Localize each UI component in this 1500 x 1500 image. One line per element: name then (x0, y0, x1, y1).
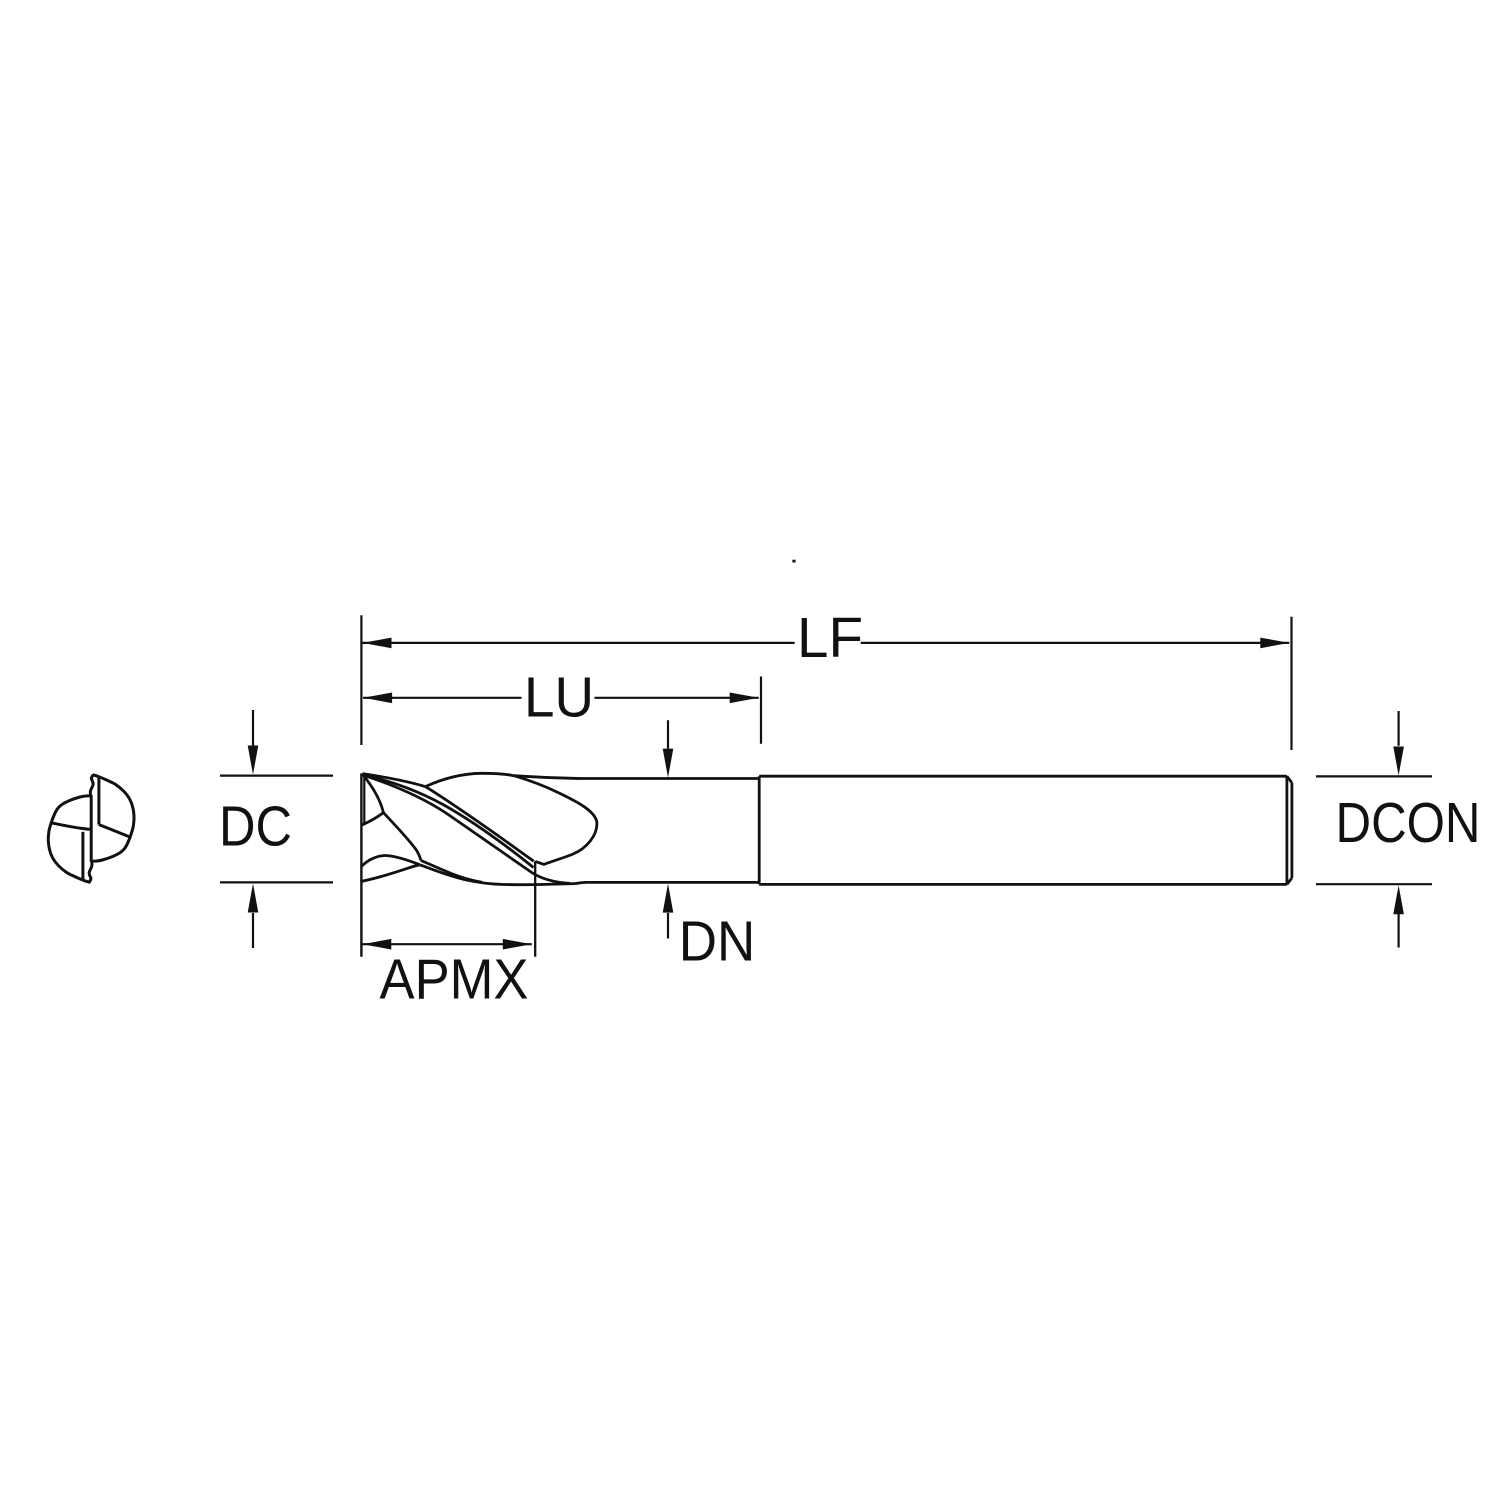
svg-text:DC: DC (219, 795, 292, 859)
svg-text:LF: LF (797, 606, 863, 670)
svg-text:APMX: APMX (380, 948, 529, 1012)
svg-text:LU: LU (524, 666, 594, 730)
svg-text:DN: DN (679, 910, 756, 974)
svg-text:DCON: DCON (1336, 791, 1481, 855)
